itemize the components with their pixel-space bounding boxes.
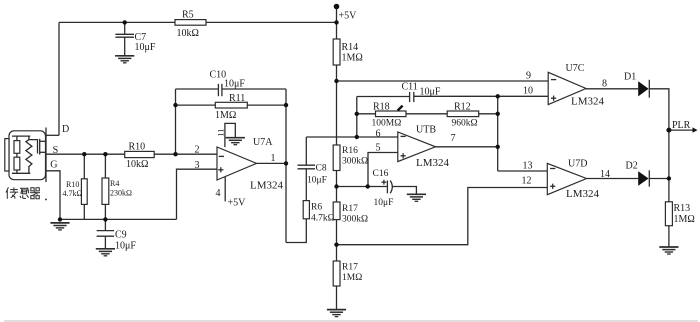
resistor R16 300k xyxy=(333,145,368,171)
svg-text:4.7kΩ: 4.7kΩ xyxy=(311,214,335,224)
ground below R17 1M xyxy=(327,310,346,317)
svg-text:R5: R5 xyxy=(182,10,194,21)
wire U7B pin 5 bend xyxy=(368,153,398,187)
svg-text:960kΩ: 960kΩ xyxy=(452,119,478,129)
wire C8 bottom lead xyxy=(305,169,307,201)
wire D2 cathode to right rail xyxy=(650,178,669,180)
ground below C9 xyxy=(96,249,115,256)
svg-text:300kΩ: 300kΩ xyxy=(342,215,368,225)
svg-text:LM324: LM324 xyxy=(571,96,605,108)
svg-text:13: 13 xyxy=(523,161,533,172)
ground right of C16 xyxy=(407,194,426,201)
svg-text:D: D xyxy=(62,124,69,135)
svg-text:LM324: LM324 xyxy=(566,188,600,200)
wire feedback left vertical xyxy=(175,89,177,154)
char chuan xyxy=(6,187,8,192)
junction main rail / pin12 bus xyxy=(334,243,338,247)
svg-text:12: 12 xyxy=(522,176,532,187)
svg-text:1MΩ: 1MΩ xyxy=(342,53,363,64)
junction S line / R10b xyxy=(82,152,86,156)
wire R4 leads xyxy=(104,154,106,178)
svg-text:1: 1 xyxy=(271,153,276,164)
char qi xyxy=(31,188,34,191)
wire C16 right lead to ground xyxy=(393,187,417,195)
svg-text:10μF: 10μF xyxy=(374,198,394,208)
op-amp U7B xyxy=(376,125,456,169)
capacitor C16 10uF polarized xyxy=(373,169,394,208)
wire PLR output stub with arrow xyxy=(669,129,694,131)
resistor R17 300k xyxy=(333,202,368,225)
junction R11 left xyxy=(173,103,177,107)
svg-text:S: S xyxy=(53,145,59,156)
wire C11 right to U7C pin 10 xyxy=(414,95,548,97)
svg-text:UTB: UTB xyxy=(416,125,436,136)
wire top +5V rail xyxy=(59,21,337,23)
svg-text:10μF: 10μF xyxy=(307,176,327,186)
op-amp U7D xyxy=(522,159,611,201)
wire U7D pin 13 line xyxy=(498,170,548,172)
svg-text:U7A: U7A xyxy=(253,137,273,148)
svg-text:9: 9 xyxy=(526,71,531,82)
junction ground bus / R4 C9 xyxy=(103,217,107,221)
svg-text:10μF: 10μF xyxy=(135,42,156,53)
svg-text:R13: R13 xyxy=(674,203,691,214)
svg-text:R4: R4 xyxy=(110,179,119,188)
wire R10b leads xyxy=(83,154,85,179)
svg-text:10μF: 10μF xyxy=(115,241,136,252)
svg-text:1MΩ: 1MΩ xyxy=(215,110,236,121)
junction U7C pin10 line xyxy=(496,94,500,98)
wire U7D pin 12 path xyxy=(337,188,548,245)
svg-text:C11: C11 xyxy=(402,82,418,93)
junction D2 / right rail xyxy=(667,176,671,180)
junction S line / R4 xyxy=(103,152,107,156)
resistor R5 10k xyxy=(175,10,206,40)
capacitor C8 10uF xyxy=(298,164,327,186)
wire sensor G pin bend xyxy=(47,171,61,220)
wire U7A pin 11 to ground xyxy=(225,123,235,147)
ground below R13 xyxy=(659,247,678,254)
junction U7A output xyxy=(284,161,288,165)
svg-text:R17: R17 xyxy=(342,204,358,214)
wire U7A pin 3 path xyxy=(177,169,218,219)
svg-text:4.7kΩ: 4.7kΩ xyxy=(63,189,83,198)
wire sensor D pin vertical xyxy=(58,22,60,135)
svg-text:U7C: U7C xyxy=(566,63,585,74)
svg-text:3: 3 xyxy=(195,160,200,171)
junction main rail / C16 line xyxy=(334,184,338,188)
wire C7 leads xyxy=(124,22,126,34)
svg-text:R12: R12 xyxy=(454,102,471,113)
svg-text:1MΩ: 1MΩ xyxy=(342,273,362,283)
junction ground bus / G xyxy=(58,217,62,221)
resistor R12 960k xyxy=(447,102,479,129)
op-amp U7A xyxy=(195,137,284,192)
resistor R14 1M xyxy=(333,39,363,65)
svg-text:10: 10 xyxy=(523,86,533,97)
svg-text:D2: D2 xyxy=(626,161,638,172)
char gan xyxy=(20,187,28,189)
wire feedback right vertical / U7A output drop xyxy=(285,89,287,243)
wire U7D output pin 14 xyxy=(587,178,639,180)
svg-text:C9: C9 xyxy=(115,230,127,241)
junction pin6 line xyxy=(355,135,359,139)
wire pin 9 line to U7C xyxy=(337,80,549,82)
svg-text:300kΩ: 300kΩ xyxy=(342,156,368,166)
svg-text:14: 14 xyxy=(600,169,610,180)
ground below sensor G xyxy=(50,223,69,230)
wire U7A output xyxy=(257,162,287,164)
node PLR xyxy=(666,120,690,133)
svg-text:C8: C8 xyxy=(316,164,327,174)
wire U7C output pin 8 xyxy=(586,88,638,90)
svg-text:8: 8 xyxy=(602,79,607,90)
svg-text:10kΩ: 10kΩ xyxy=(126,159,148,170)
svg-text:11: 11 xyxy=(216,129,225,137)
U7A pin 4 label +5V xyxy=(216,188,247,209)
junction R12 right xyxy=(496,112,500,116)
resistor R4 230k xyxy=(102,178,132,204)
junction U7B output xyxy=(496,145,500,149)
wire R18 R12 feedback line xyxy=(357,113,498,115)
svg-text:10μF: 10μF xyxy=(420,87,441,98)
svg-text:4: 4 xyxy=(216,188,221,199)
diode D2 xyxy=(626,161,650,187)
U7A pin 11 label and ground xyxy=(216,129,225,137)
wire main vertical rail x=336.5 xyxy=(336,7,338,310)
wire D1 cathode to right rail xyxy=(650,89,669,247)
resistor R13 1M xyxy=(665,202,694,226)
svg-text:2: 2 xyxy=(195,145,200,156)
svg-text:R14: R14 xyxy=(342,42,359,53)
svg-text:R18: R18 xyxy=(373,102,390,113)
resistor R6 4.7k xyxy=(303,201,334,224)
wire U7B pin 6 line xyxy=(306,136,398,138)
svg-text:R17: R17 xyxy=(342,263,358,273)
svg-text:R16: R16 xyxy=(342,146,358,156)
svg-text:D1: D1 xyxy=(624,72,636,83)
resistor R11 1M xyxy=(215,93,247,121)
wire U7A pin 4 stub xyxy=(224,177,226,202)
svg-text:230kΩ: 230kΩ xyxy=(110,189,132,198)
junction R11 right xyxy=(284,103,288,107)
svg-text:+5V: +5V xyxy=(228,198,247,209)
wire bottom-left ground bus xyxy=(60,218,177,220)
junction pin9 line xyxy=(334,79,338,83)
wire R11 feedback line xyxy=(176,104,287,106)
svg-text:R6: R6 xyxy=(311,203,322,213)
faint page bottom rule xyxy=(4,320,698,322)
op-amp U7C xyxy=(523,63,607,108)
svg-text:LM324: LM324 xyxy=(416,157,450,169)
svg-text:10kΩ: 10kΩ xyxy=(177,28,199,39)
svg-text:R10: R10 xyxy=(129,141,146,152)
wire C16 bias line xyxy=(337,186,388,188)
wire C11 top feedback left segment xyxy=(357,96,410,98)
capacitor C7 10uF xyxy=(115,32,155,53)
wire C10 right segment xyxy=(222,88,286,90)
capacitor C9 10uF xyxy=(97,230,137,252)
junction pin5 drop / C16 line xyxy=(366,184,370,188)
svg-text:10μF: 10μF xyxy=(224,79,245,90)
junction top rail / +5V rail xyxy=(334,20,338,24)
junction pin2 / feedback xyxy=(173,152,177,156)
wire C11/R18 left vertical xyxy=(356,97,358,138)
wire C8 top lead to pin6 line xyxy=(305,137,307,165)
svg-text:R11: R11 xyxy=(229,93,245,104)
resistor R18 100M trimmer xyxy=(372,102,407,129)
junction top rail / C7 xyxy=(123,20,127,24)
svg-text:U7D: U7D xyxy=(568,159,587,170)
svg-text:LM324: LM324 xyxy=(250,180,284,192)
capacitor C11 10uF xyxy=(402,82,441,103)
wire U7B output pin 7 xyxy=(436,146,498,148)
resistor R10 4.7k (sensor load) xyxy=(63,179,88,205)
svg-text:PLR: PLR xyxy=(672,120,691,131)
capacitor C10 10uF xyxy=(210,70,246,97)
wire sensor S line to U7A pin 2 xyxy=(47,153,218,155)
junction C11 left vertical / R18 xyxy=(355,112,359,116)
svg-text:C16: C16 xyxy=(373,169,389,179)
svg-text:G: G xyxy=(50,160,57,171)
svg-text:1MΩ: 1MΩ xyxy=(674,214,695,225)
ground below C7 xyxy=(115,56,134,63)
svg-text:5: 5 xyxy=(376,143,381,154)
+5V supply terminal xyxy=(334,4,357,22)
sensor label (Chinese) xyxy=(6,187,47,200)
diode D1 xyxy=(624,72,649,98)
resistor R17 1M xyxy=(333,261,362,286)
wire C9 leads xyxy=(104,219,106,230)
svg-text:7: 7 xyxy=(451,133,456,144)
wire C10 top feedback line xyxy=(176,88,219,90)
svg-text:6: 6 xyxy=(376,129,381,140)
svg-text:+5V: +5V xyxy=(339,11,358,22)
svg-text:R10: R10 xyxy=(66,180,79,189)
pyroelectric sensor package xyxy=(5,124,69,182)
wire R6 bottom bend xyxy=(286,219,306,243)
wire comparator input vertical xyxy=(497,96,499,171)
resistor R10 10k (series input) xyxy=(125,141,155,170)
svg-text:100MΩ: 100MΩ xyxy=(372,119,402,129)
